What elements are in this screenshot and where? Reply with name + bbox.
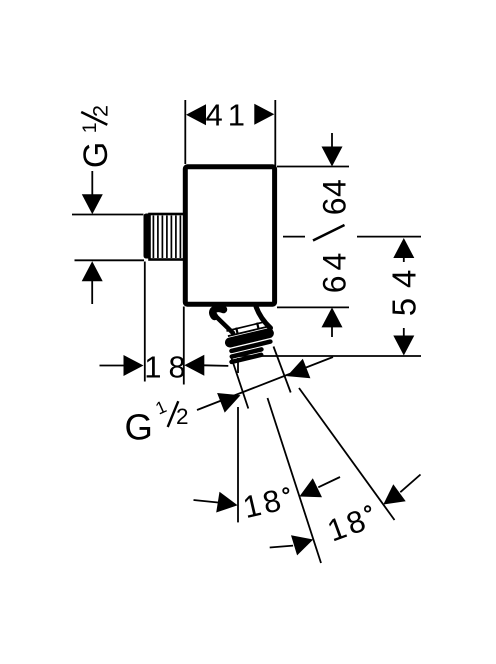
leader for arrow from left — [270, 546, 293, 548]
dimension 64/64 text (rotated, with white bg over 54 ext line) — [305, 180, 357, 293]
54 arrow up — [393, 238, 414, 258]
swivel axis line 18deg — [268, 398, 322, 563]
54 bottom stub — [403, 328, 405, 339]
54 arrow down — [393, 336, 414, 356]
18 dim arrow left-pointing — [184, 355, 204, 376]
dimension 41 arrow left — [186, 104, 206, 125]
leader below G 1/2 label — [91, 171, 93, 196]
svg-text:18: 18 — [144, 350, 192, 385]
54 top stub — [403, 258, 405, 263]
18 dim left leader — [100, 365, 126, 367]
leader for arrow at limit line — [400, 475, 420, 493]
64/64 arrow down — [322, 147, 343, 167]
G 1/2 dim lower stub — [91, 279, 93, 304]
threaded connector body — [150, 214, 188, 260]
threaded connector cap — [144, 214, 150, 259]
64/64 top stub — [331, 133, 333, 148]
degree circle 1 — [283, 488, 288, 493]
svg-text:41: 41 — [206, 98, 250, 133]
svg-text:G: G — [125, 407, 153, 448]
outlet neck left wall — [216, 316, 234, 333]
connector thread hatch — [152, 216, 154, 259]
svg-text:1: 1 — [79, 122, 101, 133]
18 dim arrow right-pointing — [124, 355, 144, 376]
swivel reference line vertical lower — [237, 407, 239, 522]
angle dim arrow at axis (from left) — [291, 535, 313, 555]
extension line 64/64 top — [277, 166, 349, 168]
G 1/2 bottom extension line — [75, 259, 145, 261]
angle dim arrow at axis (from right) — [299, 478, 322, 497]
body outline — [185, 167, 274, 304]
swivel reference line vertical upper — [237, 358, 239, 373]
outlet extension leg left — [231, 357, 248, 409]
outlet neck left hook — [213, 308, 224, 316]
leader for arrow at axis — [318, 477, 340, 487]
18 right extension line — [183, 307, 185, 385]
outlet nut group — [224, 320, 274, 361]
angle dim arrow at vertical line — [216, 492, 237, 513]
bottom fraction 1/2 — [152, 396, 169, 418]
extension line 54 bottom — [236, 355, 421, 357]
svg-text:54: 54 — [386, 260, 423, 317]
outlet dim arrow right — [287, 359, 310, 379]
outlet neck right wall — [256, 307, 271, 329]
64/64 arrow up — [322, 307, 343, 327]
G 1/2 dim arrow down — [82, 194, 103, 214]
G 1/2 dim arrow up — [82, 261, 103, 281]
swivel limit line 36deg — [299, 388, 395, 520]
svg-text:2: 2 — [176, 404, 189, 429]
angle dim arrow at limit line — [383, 484, 405, 504]
18 left extension line — [144, 262, 146, 382]
extension line 41 left — [184, 100, 186, 164]
outlet extension leg right — [274, 347, 291, 393]
outlet diameter dimension line — [197, 357, 333, 410]
dimension 41 arrow right — [254, 104, 274, 125]
svg-text:2: 2 — [88, 105, 112, 117]
svg-text:64: 64 — [317, 179, 353, 216]
64/64 bottom stub — [331, 327, 333, 337]
G 1/2 top extension line — [72, 214, 144, 216]
extension line 41 right — [274, 100, 276, 166]
left fraction 1/2 (rotated) — [79, 105, 112, 133]
angle dim leader left — [194, 500, 219, 503]
18 dim right leader — [204, 364, 228, 367]
svg-text:64: 64 — [317, 248, 353, 294]
svg-text:G: G — [77, 142, 115, 168]
extension line 54 top — [283, 236, 421, 238]
outlet dim arrow left — [217, 393, 240, 413]
extension line 64/64 bottom — [277, 306, 349, 308]
degree circle 2 — [365, 506, 370, 511]
